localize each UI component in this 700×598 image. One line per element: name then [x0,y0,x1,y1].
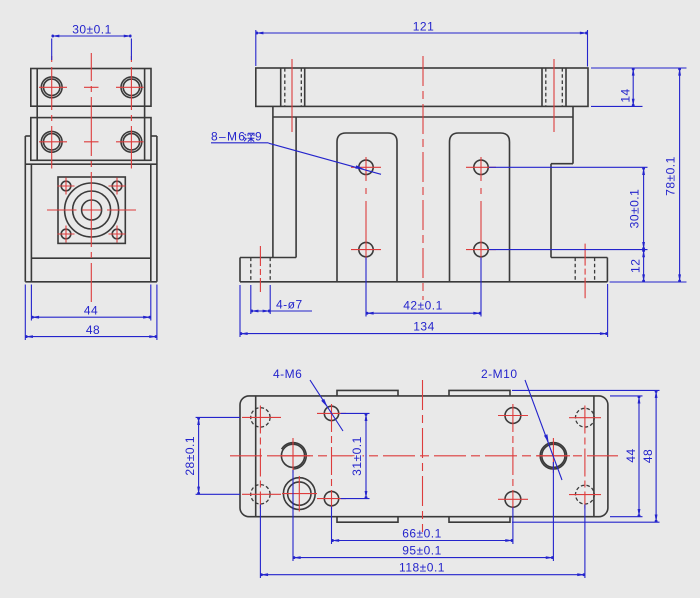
dim 121 [255,30,257,66]
svg-text:118±0.1: 118±0.1 [399,561,445,575]
left view red centerlines [39,53,144,302]
dim 48 bottom [24,285,26,341]
dim 30±0.1 right [489,166,648,168]
plate slot right [541,68,543,106]
leader 4-M6 [310,380,343,431]
dim 95±0.1 [292,470,294,561]
dim 31±0.1 [341,412,370,414]
right foot top [551,257,607,259]
body outline [25,135,31,137]
dim 44 bottom [30,285,32,321]
dim 42±0.1 [365,258,367,317]
bottom view dimensions [196,380,660,578]
plate slot left [280,68,282,106]
svg-text:14: 14 [619,88,633,102]
flange corner holes [61,181,71,191]
front view dimensions [211,30,687,337]
svg-text:44: 44 [84,304,98,318]
svg-text:31±0.1: 31±0.1 [350,436,364,476]
dim 30±0.1 top [51,39,53,61]
svg-text:42±0.1: 42±0.1 [403,299,443,313]
plate with rounded corners [240,396,608,517]
body top edge [273,116,573,118]
svg-text:28±0.1: 28±0.1 [183,436,197,476]
bottom view red centerlines [230,380,618,532]
svg-text:4-M6: 4-M6 [273,367,302,381]
svg-text:44: 44 [624,448,638,462]
svg-text:30±0.1: 30±0.1 [628,189,642,229]
svg-text:66±0.1: 66±0.1 [402,527,442,541]
col2 M6 holes [324,406,338,420]
right step [572,117,574,164]
svg-text:30±0.1: 30±0.1 [72,23,112,37]
leader 8-M6深9 [211,142,269,144]
dim 48 right [512,389,660,391]
slot right [450,133,510,282]
svg-text:48: 48 [641,449,655,463]
left foot top [240,257,296,259]
svg-text:12: 12 [629,259,643,273]
tabs [337,390,398,396]
dim 14 [591,67,687,69]
svg-text:48: 48 [86,323,100,337]
dim 134 [239,285,241,337]
block1 top plate side [31,69,151,107]
dim 44 right [610,395,643,397]
flange square [58,177,125,243]
foot hidden holes [250,258,252,282]
leader 2-M10 [525,380,562,480]
svg-text:121: 121 [413,20,435,34]
dim 118±0.1 [259,505,261,579]
svg-text:134: 134 [413,320,435,334]
col3 M6 holes [505,408,521,424]
svg-text:78±0.1: 78±0.1 [664,156,678,196]
svg-text:8–M6: 8–M6 [211,130,246,144]
bottom edge [240,281,607,283]
counterbore [283,478,315,510]
dim 28±0.1 [196,416,240,418]
svg-text:95±0.1: 95±0.1 [402,544,442,558]
flange circles [65,183,119,237]
dim 78±0.1 [610,281,687,283]
dim 12 [643,250,645,282]
left view dimensions [25,36,157,340]
col4 dashed holes [576,408,595,427]
svg-text:9: 9 [255,130,262,144]
M6 holes [359,160,373,174]
gap verticals [36,106,38,117]
col1 dashed holes [251,408,270,427]
dim 4-ø7 [250,285,252,314]
M10 right [542,444,565,467]
front view red centerlines [260,56,585,300]
top plate [256,68,588,106]
M10 left [281,444,304,467]
dim 66±0.1 [331,507,333,545]
slot left (rounded top) [337,133,397,282]
hand-drawn 深 glyph [244,133,254,142]
hex socket holes block2 [41,131,62,152]
svg-text:2-M10: 2-M10 [481,367,518,381]
hex socket holes block1 [41,77,62,98]
body left rib [272,117,274,258]
svg-text:4-ø7: 4-ø7 [276,298,303,312]
block2 [31,118,151,161]
